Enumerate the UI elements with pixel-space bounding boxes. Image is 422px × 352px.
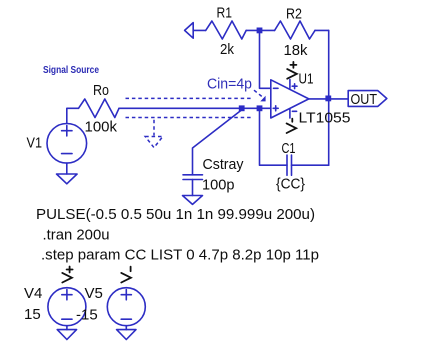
wire node to R2 [260,29,275,31]
ground (below V5) [117,330,136,340]
wire V5 to ground [125,326,127,330]
V1 plus mark [62,126,72,136]
voltage source V1 [47,124,87,164]
wire C1 left leg [260,111,288,165]
node junction input-C1 [257,105,263,111]
svg-text:-15: -15 [76,307,98,324]
wire ground to R1 [193,29,206,31]
node junction output [325,96,331,102]
V4 V+ label (rotated) [62,267,72,283]
svg-text:R1: R1 [217,5,233,22]
pin V+ stub [289,80,291,89]
svg-text:LT1055: LT1055 [299,110,351,127]
op-amp V+ label (rotated) [287,62,297,79]
ground (below V4) [57,330,76,340]
dashed ground arrow stem [153,120,155,136]
node junction R1-R2 feedback [257,28,263,34]
V5 minus mark [121,318,131,320]
wire V4 to ground [66,326,68,330]
ground (below V1) [57,174,78,184]
svg-text:Cstray: Cstray [203,156,244,173]
non-inverting input plus mark [273,106,278,111]
svg-text:U1: U1 [299,71,314,88]
dashed ground arrow head [145,137,163,148]
op-amp V- label (rotated) [287,119,297,133]
ground (left of R1, rotated left) [185,23,194,39]
svg-text:100p: 100p [202,177,235,194]
V5 plus mark [121,290,131,300]
op-amp U1 [271,80,309,118]
pin V- minus mark [292,110,296,112]
wire input node across to non-inverting input [119,107,271,109]
svg-text:Cin=4p: Cin=4p [207,77,252,93]
V4 plus mark [62,290,72,300]
svg-text:.step param CC LIST 0 4.7p 8.: .step param CC LIST 0 4.7p 8.2p 10p 11p [41,247,319,264]
wire V1 bottom to ground [66,163,68,174]
svg-text:PULSE(-0.5 0.5 50u 1n 1n 99.99: PULSE(-0.5 0.5 50u 1n 1n 99.999u 200u) [36,206,315,223]
voltage source V5 [107,288,145,326]
dashed shield line top [126,97,252,99]
Cin pointer arrowhead [261,97,265,101]
wire V1 top to Ro [67,108,79,123]
svg-text:C1: C1 [282,140,296,157]
node junction input-Cstray [239,105,245,111]
dashed Cin pointer line [254,90,262,96]
svg-text:V4: V4 [24,285,42,302]
svg-text:R2: R2 [286,6,302,23]
inverting input minus mark [274,87,279,89]
svg-text:V5: V5 [85,285,103,302]
svg-text:{CC}: {CC} [276,176,305,193]
wire feedback node down to inverting input [260,33,271,88]
pin V- stub [289,110,291,118]
ground (below Cstray) [183,196,203,205]
capacitor C1 [287,155,292,175]
svg-text:Signal Source: Signal Source [43,65,99,76]
wire Cstray diagonal from input node [193,110,242,175]
resistor R1 [206,21,247,39]
svg-text:15: 15 [24,306,41,323]
voltage source V4 [48,288,86,326]
svg-text:.tran 200u: .tran 200u [43,227,110,244]
svg-text:100k: 100k [85,119,118,136]
resistor R2 [275,21,315,39]
resistor Ro [79,99,120,118]
svg-text:Ro: Ro [93,82,109,99]
wire C1 right leg [292,164,329,166]
V1 minus mark [62,153,72,155]
svg-text:2k: 2k [220,41,234,58]
wire Cstray to ground [192,180,194,196]
svg-text:OUT: OUT [351,91,378,108]
svg-text:V1: V1 [27,135,43,152]
V4 minus mark [62,318,72,320]
pin V+ plus mark [292,84,297,89]
OUT flag [348,91,387,107]
dashed shield line bottom [126,117,252,119]
svg-text:18k: 18k [284,42,308,59]
V5 V- label (rotated) [121,267,131,283]
wire op-amp output to OUT flag [309,98,348,100]
capacitor Cstray [183,175,203,180]
wire R1 to node [246,29,259,31]
wire right vertical (R2 to output to C1 right) [328,30,330,165]
wire R2 to right vertical [315,29,329,31]
